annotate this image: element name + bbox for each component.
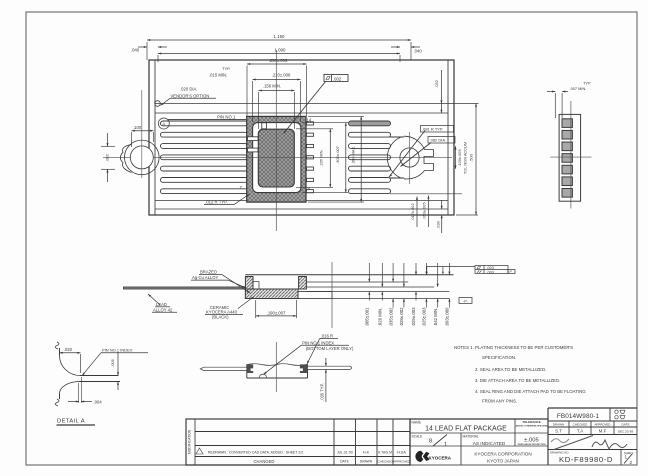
right lead slots 8-14 [349, 121, 391, 194]
dim .040 right [391, 46, 422, 54]
svg-text:.004: .004 [94, 399, 103, 404]
svg-text:.040: .040 [414, 49, 423, 54]
pin 1 index mark on pad [262, 123, 267, 129]
modification row 2 [254, 459, 411, 464]
svg-text:.007 MIN.: .007 MIN. [570, 86, 587, 91]
svg-text:.040: .040 [131, 48, 140, 53]
svg-text:.015 MIN.: .015 MIN. [209, 73, 227, 78]
drawn/checked/approved values [548, 429, 637, 435]
svg-text:KYOTO JAPAN: KYOTO JAPAN [487, 459, 519, 464]
svg-text:A: A [162, 122, 165, 127]
callout BRAZED Ag-Cu ALLOY [191, 270, 251, 294]
svg-text:MATERIAL: MATERIAL [463, 434, 479, 438]
dim .050±.005 [390, 194, 462, 227]
left lead slots 1-7 [161, 121, 248, 194]
MATERIAL cell [463, 434, 506, 446]
DETAIL A title [57, 419, 96, 426]
svg-text:DATE: DATE [621, 423, 629, 427]
SCALE cell [412, 434, 448, 448]
section: seal ring left wall (hatched) [245, 277, 253, 299]
svg-text:1.000: 1.000 [275, 48, 287, 53]
signature row [548, 436, 637, 450]
svg-text:M.F: M.F [599, 429, 607, 434]
svg-text:(BLACK): (BLACK) [212, 315, 229, 320]
drawing number row [550, 450, 633, 466]
bottom section: body outline [247, 364, 308, 378]
feature control frame .003/.003 [426, 266, 515, 275]
svg-text:.026 MIN.: .026 MIN. [378, 308, 383, 327]
dim .100 [132, 125, 154, 147]
dim .005±.001 [365, 263, 371, 327]
KYOCERA logo cell [415, 451, 451, 462]
svg-text:DETAIL A: DETAIL A [57, 419, 85, 425]
svg-text:KD-F89980-D: KD-F89980-D [559, 455, 613, 464]
vendor option hole .020 dia [155, 101, 161, 107]
dim .040 left [131, 46, 167, 53]
svg-text:DEC.20.'89: DEC.20.'89 [618, 429, 634, 433]
svg-text:PIN NO.1 INDEX: PIN NO.1 INDEX [302, 340, 334, 345]
svg-text:.042 MIN.: .042 MIN. [433, 308, 438, 327]
svg-text:TYP.: TYP. [583, 80, 591, 85]
dim .035 TYP [320, 358, 327, 402]
svg-text:.012 R TYP.: .012 R TYP. [205, 199, 228, 204]
svg-text:T.A: T.A [577, 429, 583, 434]
body edge lead tabs (right side pins) [307, 122, 314, 193]
FB number box [548, 408, 637, 421]
dim .004 [68, 377, 102, 404]
svg-text:14 LEAD FLAT PACKAGE: 14 LEAD FLAT PACKAGE [425, 426, 507, 433]
svg-text:.035±.002: .035±.002 [388, 307, 393, 327]
dim .007 MIN TYP [547, 80, 591, 118]
dim 1.150 [147, 34, 411, 60]
svg-text:CHECKED: CHECKED [377, 460, 393, 464]
svg-text:DRAWING NO.: DRAWING NO. [550, 450, 569, 454]
svg-text:UNLESS OTHERWISE SPECIFIED: UNLESS OTHERWISE SPECIFIED [515, 426, 549, 428]
svg-text:APPROVED: APPROVED [393, 460, 411, 464]
bottom section: centerline [275, 342, 277, 392]
bottom section: pin 1 index dome [259, 374, 266, 378]
svg-text:.081 R TYP.: .081 R TYP. [422, 127, 443, 132]
dim 1.000 [158, 48, 400, 63]
vertical centerline of body [275, 50, 277, 231]
detail A balloon on pin 1 [158, 118, 246, 129]
svg-text:REDRAWN : CONVERTED CAD DA: REDRAWN : CONVERTED CAD DATA. ADDED : SH… [208, 451, 303, 455]
svg-text:Ag-Cu ALLOY: Ag-Cu ALLOY [192, 275, 219, 280]
svg-text:1: 1 [625, 455, 628, 460]
svg-text:S.T: S.T [555, 429, 562, 434]
dim .042 MIN. [433, 263, 439, 326]
dim .005 [110, 352, 119, 390]
svg-text:KYOCERA CORPORATION: KYOCERA CORPORATION [474, 452, 531, 457]
svg-text:FB014W980-1: FB014W980-1 [557, 413, 600, 420]
side view centerlines [550, 101, 591, 209]
callout .020 DIA vendor option [160, 87, 216, 107]
dim .235 MIN [296, 129, 333, 188]
svg-text:.020 DIA.: .020 DIA. [180, 87, 197, 92]
title block: main [410, 408, 548, 465]
TOLERANCE cell [515, 420, 549, 446]
svg-text:.005: .005 [110, 358, 115, 367]
datum -P- [459, 298, 472, 304]
svg-text:.156 MIN.: .156 MIN. [263, 83, 281, 88]
svg-text:CHANGED: CHANGED [254, 459, 275, 464]
dim .390 MAX [308, 116, 364, 202]
dim .026 MIN. [378, 263, 384, 326]
svg-text:.100: .100 [133, 125, 142, 130]
bottom section: right braze block [300, 364, 308, 373]
section: base ledge [298, 292, 332, 299]
package body (ceramic, hatched) [247, 116, 306, 202]
callout CERAMIC KYOCERA A440 BLACK [205, 296, 255, 320]
svg-text:JUL.31.'90: JUL.31.'90 [337, 451, 353, 455]
svg-text:SPECIFICATION.: SPECIFICATION. [482, 355, 516, 360]
seal area white band [253, 123, 301, 193]
leader .081 R TYP [388, 126, 453, 178]
callout .016 R [306, 334, 338, 365]
svg-text:.093±.009: .093±.009 [445, 307, 450, 327]
svg-text:2. SEAL AREA TO BE METALL: 2. SEAL AREA TO BE METALLIZED. [475, 367, 546, 372]
dim .250±.005 [247, 58, 307, 116]
dim .210±.006 [253, 73, 301, 123]
svg-text:3. DIE ATTACH AREA TO BE: 3. DIE ATTACH AREA TO BE METALLIZED. [475, 378, 560, 383]
flatness callout .002 [283, 75, 348, 135]
modification row 1 [196, 448, 406, 455]
dim .015 MIN TYP [209, 66, 230, 78]
svg-text:.020: .020 [64, 347, 73, 352]
svg-text:-P-: -P- [463, 299, 469, 303]
svg-text:FROM ANY PINS.: FROM ANY PINS. [482, 399, 517, 404]
section: vertical centerline [331, 262, 333, 328]
dim .093±.009 [445, 263, 451, 327]
svg-text:2: 2 [630, 460, 633, 465]
section: lead left [124, 287, 246, 289]
svg-text:.016 R: .016 R [321, 334, 333, 339]
bottom section: leads [200, 366, 351, 370]
svg-text:.017±.002: .017±.002 [410, 203, 415, 220]
leader .082 DIA [400, 137, 455, 168]
bottom section: left braze block [247, 364, 253, 373]
dim .100±.005 TOL NON ACCUM [454, 142, 467, 174]
die attach pad (hatched) [258, 129, 294, 187]
svg-text:.028±.002: .028±.002 [399, 307, 404, 327]
dim .082 (hole) [101, 133, 115, 182]
callout LEAD ALLOY 42 [147, 293, 177, 312]
NAME cell [412, 420, 508, 432]
svg-text:.100±.005: .100±.005 [457, 149, 462, 166]
scalloped edge tab [120, 145, 131, 173]
corporation cell [474, 452, 531, 464]
svg-text:±.005: ±.005 [524, 437, 539, 443]
dim .035±.002 [388, 263, 394, 327]
svg-text:14: 14 [307, 118, 312, 123]
svg-text:.005±.001: .005±.001 [365, 307, 370, 327]
dim .025±.003 [411, 263, 417, 327]
top view: lead frame outline [149, 60, 479, 215]
svg-text:KYOCERA: KYOCERA [429, 455, 452, 460]
svg-text:TYP.: TYP. [222, 66, 230, 71]
svg-text:.030: .030 [436, 220, 441, 228]
svg-text:AS INDICATED: AS INDICATED [473, 441, 506, 446]
svg-text:CHECKED: CHECKED [573, 423, 589, 427]
centerlines over body [247, 116, 306, 202]
pad side notches [248, 137, 259, 141]
svg-text:PIN NO.1 INDEX: PIN NO.1 INDEX [102, 348, 133, 353]
svg-text:DRAWN: DRAWN [360, 460, 373, 464]
svg-text:NAME: NAME [412, 420, 422, 424]
svg-text:.003: .003 [487, 270, 494, 274]
drawn/checked/approved/date header [548, 421, 637, 435]
dim .028±.002 [399, 263, 405, 327]
section: package top surface line [245, 274, 453, 276]
title block: modification strip [186, 419, 410, 465]
svg-text:ALLOY 42: ALLOY 42 [153, 307, 173, 312]
svg-text:.082 DIA.: .082 DIA. [430, 138, 447, 143]
dim .190±.007 [256, 300, 297, 318]
section: seal ring right wall (hatched) [299, 277, 307, 290]
svg-text:BRAZED: BRAZED [200, 270, 217, 275]
svg-text:NOTES 1. PLATING THICKNESS: NOTES 1. PLATING THICKNESS TO BE PER CUS… [454, 345, 573, 350]
svg-text:.390 MAX.: .390 MAX. [350, 146, 355, 165]
svg-text:PIN NO.1: PIN NO.1 [217, 114, 236, 119]
svg-text:THIRD ANGLE PROJECTION: THIRD ANGLE PROJECTION [517, 443, 546, 446]
svg-text:(BOTTOM LAYER ONLY): (BOTTOM LAYER ONLY) [306, 346, 354, 351]
side view leads (7 squares) [562, 119, 572, 197]
svg-text:DRAWN: DRAWN [553, 423, 565, 427]
svg-text:.082: .082 [105, 153, 110, 162]
dim .017±.002 [410, 197, 418, 228]
dim .156 MIN [259, 83, 295, 129]
svg-text:1: 1 [444, 442, 447, 448]
svg-text:H.SA: H.SA [397, 451, 406, 455]
svg-text:MODIFICATION: MODIFICATION [188, 429, 192, 454]
svg-text:.500: .500 [469, 153, 474, 162]
svg-text:.190±.007: .190±.007 [267, 310, 286, 315]
dim .305±.007 [302, 123, 348, 193]
svg-text:APPROVED: APPROVED [594, 423, 610, 427]
right keyed pilot hole [387, 132, 433, 184]
detail A: metallization edge [55, 382, 120, 407]
notes text [454, 345, 586, 404]
svg-text:1.150: 1.150 [274, 34, 286, 39]
left tooling hole [125, 90, 160, 178]
section: ceramic base slab (hatched) [245, 289, 298, 299]
svg-text:TOL NON ACCUM: TOL NON ACCUM [463, 142, 468, 174]
detail A: outer edge [55, 342, 118, 376]
svg-text:.025±.003: .025±.003 [422, 307, 427, 327]
horizontal centerline [103, 157, 452, 159]
section: cavity step [253, 282, 259, 289]
svg-text:.210±.006: .210±.006 [272, 73, 291, 78]
svg-text:K.TA/S.M: K.TA/S.M [378, 451, 392, 455]
svg-text:H.K: H.K [363, 451, 370, 455]
svg-text:.305±.007: .305±.007 [335, 145, 340, 164]
callout PIN NO.1 INDEX (detail) [81, 348, 148, 377]
callout .012 R TYP [204, 193, 250, 204]
svg-text:.235 MIN.: .235 MIN. [319, 149, 324, 166]
dim .020 [60, 347, 81, 373]
svg-text:VENDOR'S OPTION: VENDOR'S OPTION [171, 93, 210, 98]
dim .500 [456, 104, 478, 216]
dim .032 top right [434, 70, 442, 113]
svg-text:8: 8 [429, 438, 432, 444]
callout PIN NO.1 INDEX (BOTTOM LAYER ONLY) [263, 340, 354, 375]
section: leads right staggered [306, 282, 449, 299]
svg-text:.250±.005: .250±.005 [269, 58, 288, 63]
dim .025±.003 [422, 263, 428, 327]
svg-text:.050±.005: .050±.005 [422, 202, 427, 219]
svg-text:DATE: DATE [340, 460, 350, 464]
svg-text:.035 TYP.: .035 TYP. [320, 383, 325, 401]
svg-text:TOLERANCE: TOLERANCE [522, 420, 541, 424]
svg-text:SCALE: SCALE [412, 434, 424, 438]
dim .030 [436, 200, 443, 233]
side view body outline [559, 114, 581, 201]
svg-text:4. SEAL RING AND DIE ATTA: 4. SEAL RING AND DIE ATTACH PAD TO BE FL… [475, 389, 586, 394]
svg-text:.002: .002 [333, 76, 342, 81]
svg-text:.025±.003: .025±.003 [411, 307, 416, 327]
svg-text:.032: .032 [434, 79, 439, 88]
